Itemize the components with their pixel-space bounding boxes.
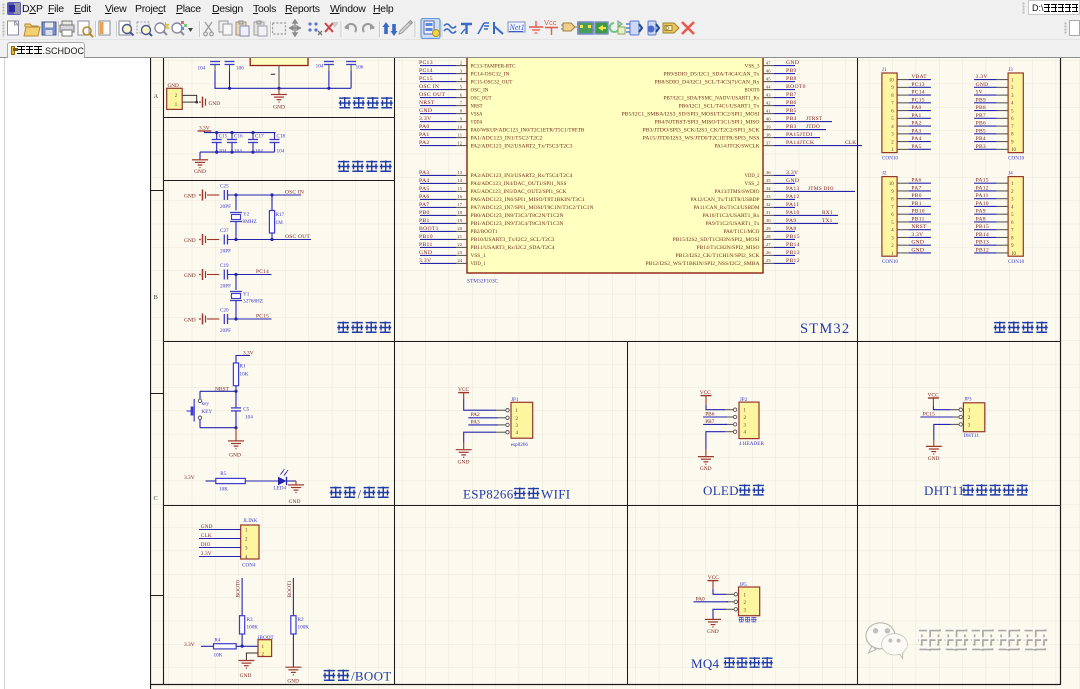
svg-text:C19: C19 <box>220 263 229 269</box>
pin 40 right wire + net PB4 <box>763 121 774 123</box>
wire PA0 mq4 <box>694 601 729 603</box>
svg-text:3.3V: 3.3V <box>976 74 988 80</box>
svg-text:PB11/USART3_Rx/I2C2_SDA/T2C4: PB11/USART3_Rx/I2C2_SDA/T2C4 <box>471 246 556 251</box>
svg-text:C17: C17 <box>255 134 264 140</box>
svg-text:PB6: PB6 <box>976 121 986 127</box>
svg-text:104: 104 <box>245 415 253 421</box>
svg-text:25: 25 <box>766 258 771 263</box>
svg-text:PB3: PB3 <box>786 124 797 130</box>
svg-text:PA12/CAN_Tx/T1ETR/USBDP: PA12/CAN_Tx/T1ETR/USBDP <box>691 198 760 203</box>
svg-text:33: 33 <box>766 194 771 199</box>
svg-text:PA3: PA3 <box>911 128 921 134</box>
svg-text:PA1: PA1 <box>911 113 921 119</box>
svg-text:22: 22 <box>457 242 462 247</box>
wire R3 to junction <box>241 634 243 646</box>
wire PB6 <box>703 416 727 418</box>
svg-text:PC13: PC13 <box>911 82 924 88</box>
svg-text:20PF: 20PF <box>220 284 231 290</box>
pin 6 left wire + net OSC OUT <box>420 97 456 99</box>
wire row C27 <box>228 239 312 241</box>
svg-text:GND: GND <box>928 456 940 462</box>
svg-text:19: 19 <box>457 218 462 223</box>
svg-text:JTRST: JTRST <box>806 116 823 122</box>
svg-text:MQ4: MQ4 <box>691 656 720 671</box>
ground oled <box>698 456 714 458</box>
svg-text:45: 45 <box>766 76 771 81</box>
section title 滤波电路 <box>338 161 350 173</box>
svg-text:23: 23 <box>457 250 462 255</box>
pin 12 left wire + net PA2 <box>420 145 456 147</box>
svg-text:3.3V: 3.3V <box>419 116 432 122</box>
pin 24 left wire + net 3.3V <box>420 262 456 264</box>
svg-text:106: 106 <box>236 66 244 72</box>
wire VCC to JP3 pin1 <box>933 406 950 410</box>
svg-text:VDD_2: VDD_2 <box>745 174 761 179</box>
svg-text:20: 20 <box>457 226 462 231</box>
ground below regulator <box>278 88 280 94</box>
wire row C25 <box>228 194 302 196</box>
section divider lines <box>394 58 396 685</box>
zone tick marks <box>150 190 163 192</box>
svg-text:PA3: PA3 <box>419 170 430 176</box>
svg-text:GND: GND <box>707 629 719 635</box>
svg-text:35: 35 <box>766 178 771 183</box>
pin 34 right wire + net PA13 <box>763 190 774 192</box>
svg-text:PA1: PA1 <box>419 132 430 138</box>
svg-text:BOOT0: BOOT0 <box>745 88 761 93</box>
svg-text:C25: C25 <box>220 184 229 190</box>
svg-text:PA9: PA9 <box>976 209 986 215</box>
wire JBOOT pin2 to GND <box>246 653 258 660</box>
svg-text:DIO: DIO <box>201 542 211 548</box>
wire 3.3V to R5 <box>206 480 216 482</box>
svg-text:104: 104 <box>316 64 324 70</box>
svg-text:100K: 100K <box>247 624 259 630</box>
svg-text:D: D <box>666 26 670 32</box>
svg-text:104: 104 <box>198 66 206 72</box>
svg-text:20PF: 20PF <box>220 204 231 210</box>
svg-text:RX1: RX1 <box>822 210 833 216</box>
svg-text:C27: C27 <box>220 228 229 234</box>
svg-text:PB10: PB10 <box>419 234 433 240</box>
svg-text:PC15-OSC32_OUT: PC15-OSC32_OUT <box>471 80 513 85</box>
svg-text:3.3V: 3.3V <box>419 258 432 264</box>
svg-text:J1: J1 <box>882 67 887 73</box>
svg-text:10: 10 <box>457 124 462 129</box>
svg-text:1M: 1M <box>276 220 284 226</box>
section title 下载/BOOT <box>323 670 335 682</box>
pin 18 left wire + net PB0 <box>420 214 456 216</box>
svg-text:PA10/T1C3/USART1_Rx: PA10/T1C3/USART1_Rx <box>703 214 761 219</box>
wire row C20 <box>228 318 272 320</box>
junctions filter <box>215 131 218 134</box>
pin 7 left wire + net NRST <box>420 105 456 107</box>
svg-text:10: 10 <box>1011 148 1016 153</box>
svg-text:PB1/ADC123_IN9/T3C4/T8C3N/T1C3: PB1/ADC123_IN9/T3C4/T8C3N/T1C3N <box>471 222 565 227</box>
svg-text:VDDA: VDDA <box>471 120 483 125</box>
svg-text:3.3V: 3.3V <box>201 551 212 557</box>
svg-text:10K: 10K <box>214 652 223 658</box>
svg-text:39: 39 <box>766 124 771 129</box>
svg-text:PB0/ADC123_IN8/T3C3/T8C2N/T1C2: PB0/ADC123_IN8/T3C3/T8C2N/T1C2N <box>471 214 565 219</box>
pin 3 left wire + net PC14 <box>420 73 456 75</box>
capacitor C9 (cut top) <box>210 61 220 63</box>
svg-text:PB15: PB15 <box>786 234 800 240</box>
svg-text:NRST: NRST <box>419 100 435 106</box>
power port GND at P1 <box>202 97 204 108</box>
svg-text:41: 41 <box>766 108 771 113</box>
pin 19 left wire + net PB1 <box>420 222 456 224</box>
svg-text:PA5/ADC123_IN5/DAC_OUT2/SPI1_S: PA5/ADC123_IN5/DAC_OUT2/SPI1_SCK <box>471 190 568 195</box>
svg-text:WIFI: WIFI <box>541 487 570 502</box>
ground jboot <box>238 660 254 662</box>
svg-text:28: 28 <box>766 234 771 239</box>
svg-text:PB13: PB13 <box>786 250 800 256</box>
svg-text:40: 40 <box>766 116 771 121</box>
svg-text:GND: GND <box>289 499 301 505</box>
wire key bottom <box>200 427 236 429</box>
pin 46 right wire + net PB9 <box>763 73 774 75</box>
svg-text:PB9/SDIO_D5/I2C1_SDA/T4C4/CAN_: PB9/SDIO_D5/I2C1_SDA/T4C4/CAN_Tx <box>664 72 761 77</box>
switch S1 KEY <box>199 391 201 399</box>
svg-text:PA8: PA8 <box>976 216 986 222</box>
svg-text:GND: GND <box>229 453 241 459</box>
svg-text:GND: GND <box>184 194 196 200</box>
svg-text:PA4/ADC123_IN4/DAC_OUT1/SPI1_N: PA4/ADC123_IN4/DAC_OUT1/SPI1_NSS <box>471 182 567 187</box>
crystal Y2 8MHZ <box>235 195 237 211</box>
svg-text:PC15: PC15 <box>911 97 924 103</box>
svg-text:PA12: PA12 <box>786 194 800 200</box>
pin 15 left wire + net PA5 <box>420 190 456 192</box>
svg-text:3.3V: 3.3V <box>786 170 799 176</box>
svg-text:GND: GND <box>201 524 213 530</box>
svg-text:104: 104 <box>255 149 263 155</box>
wire BOOT0 to R3 <box>241 578 243 616</box>
wire jlink CLK <box>199 538 241 540</box>
svg-text:CON10: CON10 <box>882 259 899 265</box>
svg-text:OSC OUT: OSC OUT <box>285 234 311 240</box>
svg-text:PB12/I2S2_WS/T1BKIN/SPI2_NSS/I: PB12/I2S2_WS/T1BKIN/SPI2_NSS/I2C2_SMBA <box>646 262 761 267</box>
svg-text:C16: C16 <box>234 134 243 140</box>
svg-text:PB8: PB8 <box>786 76 797 82</box>
svg-text:PB1: PB1 <box>419 218 430 224</box>
svg-text:PB13: PB13 <box>976 240 989 246</box>
capacitor C25 <box>223 190 225 200</box>
svg-text:PA0/WKUP/ADC123_IN0/T2C1ETR/T5: PA0/WKUP/ADC123_IN0/T2C1ETR/T5C1/T8ETR <box>471 128 586 133</box>
svg-text:PA0: PA0 <box>419 124 430 130</box>
pin 38 right wire + net PA15JTDI <box>763 137 774 139</box>
wire JP5 pin3 to GND <box>713 609 726 619</box>
svg-text:A: A <box>154 93 159 100</box>
svg-text:5V: 5V <box>976 90 983 96</box>
pin 35 right wire + net GND <box>763 182 774 184</box>
svg-text:31: 31 <box>766 210 771 215</box>
svg-text:VDD_1: VDD_1 <box>471 262 487 267</box>
svg-text:GND: GND <box>700 466 712 472</box>
svg-text:36: 36 <box>766 170 771 175</box>
svg-text:PA7: PA7 <box>419 202 430 208</box>
svg-text:PC13-TAMPER-RTC: PC13-TAMPER-RTC <box>471 64 516 69</box>
svg-text:PC13: PC13 <box>419 60 433 66</box>
svg-text:R4: R4 <box>214 637 220 643</box>
svg-text:Y1: Y1 <box>243 292 250 298</box>
svg-text:PA15JTDI: PA15JTDI <box>786 132 813 138</box>
svg-text:BOOT1: BOOT1 <box>419 226 439 232</box>
svg-text:PB7: PB7 <box>976 113 986 119</box>
pin 42 right wire + net PB6 <box>763 105 774 107</box>
svg-text:TX1: TX1 <box>822 218 833 224</box>
resistor R4 10K <box>214 644 237 649</box>
svg-text:PB11: PB11 <box>911 216 924 222</box>
svg-text:PA10: PA10 <box>786 210 800 216</box>
wire JP3 pin3 to GND <box>934 424 951 440</box>
svg-text:C20: C20 <box>220 308 229 314</box>
svg-text:PB4: PB4 <box>976 136 986 142</box>
capacitor C16 <box>231 133 233 140</box>
svg-text:Y2: Y2 <box>243 212 250 218</box>
wire filter bottom <box>200 151 275 153</box>
svg-text:PA4: PA4 <box>419 178 430 184</box>
sheet border frame <box>150 58 152 689</box>
svg-text:GND: GND <box>911 240 924 246</box>
svg-text:PA10: PA10 <box>976 201 989 207</box>
svg-text:JTMS DIO: JTMS DIO <box>808 186 834 192</box>
svg-text:20PF: 20PF <box>220 249 231 255</box>
sheet background <box>150 58 1080 689</box>
svg-text:38: 38 <box>766 132 771 137</box>
svg-text:PB9: PB9 <box>976 97 986 103</box>
svg-text:104: 104 <box>234 149 242 155</box>
section title 电压转换 <box>339 97 351 109</box>
svg-text:PA9/T1C2/USART1_Tx: PA9/T1C2/USART1_Tx <box>706 222 761 227</box>
pin 9 left wire + net 3.3V <box>420 121 456 123</box>
svg-text:CON10: CON10 <box>1008 156 1025 162</box>
svg-text:PA13: PA13 <box>786 186 800 192</box>
svg-text:10: 10 <box>889 78 894 83</box>
svg-text:NRST: NRST <box>911 224 927 230</box>
svg-text:PB10: PB10 <box>911 209 924 215</box>
svg-text:PA6: PA6 <box>911 178 921 184</box>
svg-text:CON10: CON10 <box>882 156 899 162</box>
svg-text:PB7: PB7 <box>786 92 797 98</box>
svg-text:PA2: PA2 <box>419 140 430 146</box>
svg-text:DHT11: DHT11 <box>963 433 979 439</box>
svg-text:PB10/USART3_Tx/I2C2_SCL/T2C3: PB10/USART3_Tx/I2C2_SCL/T2C3 <box>471 238 556 243</box>
svg-text:104: 104 <box>219 149 227 155</box>
ground esp8266 <box>456 449 472 451</box>
pin 16 left wire + net PA6 <box>420 198 456 200</box>
svg-text:OLED: OLED <box>703 483 739 498</box>
capacitor C20 <box>223 314 225 324</box>
svg-text:PC15: PC15 <box>419 76 433 82</box>
svg-text:GND: GND <box>273 105 285 111</box>
pin 21 left wire + net PB10 <box>420 238 456 240</box>
svg-text:CLK: CLK <box>201 533 212 539</box>
svg-text:PA8/T1C1/MCO: PA8/T1C1/MCO <box>724 230 761 235</box>
pin 17 left wire + net PA7 <box>420 206 456 208</box>
svg-text:PA3/ADC123_IN3/USART2_Rx/T5C4/: PA3/ADC123_IN3/USART2_Rx/T5C4/T2C4 <box>471 174 574 179</box>
wire JP1 pin4 to GND <box>464 432 496 442</box>
svg-text:GND: GND <box>209 101 221 107</box>
pin 25 right wire + net PB12 <box>763 262 774 264</box>
svg-text:BOOT0: BOOT0 <box>236 580 242 598</box>
svg-text:PA6: PA6 <box>419 194 430 200</box>
svg-text:3.3V: 3.3V <box>911 232 923 238</box>
svg-text:PB4/NJTRST/SPI3_MISO/T3C1/SPI1: PB4/NJTRST/SPI3_MISO/T3C1/SPI1_MISO <box>655 120 761 125</box>
svg-text:C18: C18 <box>277 134 286 140</box>
svg-text:10: 10 <box>889 182 894 187</box>
pin 22 left wire + net PB11 <box>420 246 456 248</box>
pin 30 right wire + net PA9 <box>763 222 774 224</box>
svg-text:20PF: 20PF <box>220 328 231 334</box>
ground R2 <box>285 666 301 668</box>
svg-text:PB13/I2S2_CK/T1CH1N/SPI2_SCK: PB13/I2S2_CK/T1CH1N/SPI2_SCK <box>676 254 761 259</box>
svg-text:PB14/T1CH2N/SPI2_MISO: PB14/T1CH2N/SPI2_MISO <box>697 246 761 251</box>
resistor R5 10K <box>216 478 246 483</box>
svg-text:PA14/JTCK/SWCLK: PA14/JTCK/SWCLK <box>715 144 761 149</box>
svg-text:J2: J2 <box>882 171 887 177</box>
STM32F103C chip body U2 <box>467 47 763 273</box>
pin 33 right wire + net PA12 <box>763 198 774 200</box>
svg-text:10K: 10K <box>240 372 249 378</box>
capacitor C5 104 <box>235 391 237 408</box>
svg-text:37: 37 <box>766 140 771 145</box>
svg-text:J3: J3 <box>1008 67 1013 73</box>
svg-text:GND: GND <box>458 460 470 466</box>
resistor R1 10K <box>233 363 238 386</box>
svg-text:BOOT1: BOOT1 <box>287 580 293 598</box>
svg-text:JLINK: JLINK <box>243 518 258 524</box>
svg-text:OSC IN: OSC IN <box>419 84 439 90</box>
svg-text:PA14JTCK: PA14JTCK <box>786 140 815 146</box>
svg-text:GND: GND <box>194 169 206 175</box>
svg-text:3.3V: 3.3V <box>184 642 195 648</box>
svg-text:32768HZ: 32768HZ <box>243 298 263 304</box>
svg-text:PB3: PB3 <box>976 144 986 150</box>
svg-text:GND: GND <box>976 82 989 88</box>
svg-text:42: 42 <box>766 100 771 105</box>
svg-text:11: 11 <box>458 132 463 137</box>
svg-text:PA13/JTMS/SWDIO: PA13/JTMS/SWDIO <box>715 190 761 195</box>
wire VCC to JP5 pin1 <box>713 589 726 595</box>
pin 2 left wire + net PC13 <box>420 65 456 67</box>
capacitor C15 <box>216 133 218 140</box>
svg-text:PB5: PB5 <box>976 128 986 134</box>
wire NRST <box>200 390 236 392</box>
resistor R2 100K <box>291 616 296 634</box>
pin 23 left wire + net GND <box>420 254 456 256</box>
wire R1 bottom <box>235 386 237 392</box>
svg-text:PB1: PB1 <box>911 201 921 207</box>
svg-text:PA0: PA0 <box>911 105 921 111</box>
wire PC15 dht11 <box>920 416 952 418</box>
capacitor C12 (cut top) <box>346 61 356 63</box>
svg-text:PC14: PC14 <box>419 68 433 74</box>
svg-text:OSC_IN: OSC_IN <box>471 88 490 93</box>
pin 32 right wire + net PA11 <box>763 206 774 208</box>
svg-text:STM32F103C: STM32F103C <box>467 279 499 285</box>
svg-text:GND: GND <box>786 60 799 66</box>
pin 11 left wire + net PA1 <box>420 137 456 139</box>
svg-text:VBAT: VBAT <box>911 74 927 80</box>
svg-text:34: 34 <box>766 186 771 191</box>
pin 5 left wire + net OSC IN <box>420 89 456 91</box>
svg-text:R17: R17 <box>276 212 285 218</box>
watermark wechat icon <box>866 623 907 659</box>
pin 13 left wire + net PA3 <box>420 174 456 176</box>
resistor R17 1M <box>271 195 273 211</box>
svg-text:/BOOT: /BOOT <box>351 669 392 684</box>
svg-text:PA2: PA2 <box>911 121 921 127</box>
pin 8 left wire + net GND <box>420 113 456 115</box>
svg-text:30: 30 <box>766 218 771 223</box>
svg-text:PB15/I2S2_SD/T1CH3N/SPI2_MOSI: PB15/I2S2_SD/T1CH3N/SPI2_MOSI <box>673 238 760 243</box>
pin 39 right wire + net PB3 <box>763 129 774 131</box>
watermark text 学霸单片机 <box>918 628 942 651</box>
svg-text:C5: C5 <box>243 407 249 413</box>
wire 3.3V to R4 <box>201 645 214 647</box>
svg-text:key: key <box>202 401 210 407</box>
wire BOOT1 to R2 <box>292 578 294 616</box>
wire jlink DIO <box>199 547 241 549</box>
svg-text:PA6/ADC123_IN6/SPI1_MISO/T8T1B: PA6/ADC123_IN6/SPI1_MISO/T8T1BKIN/T3C1 <box>471 198 586 203</box>
svg-text:R2: R2 <box>298 617 304 623</box>
svg-text:PB5: PB5 <box>786 108 797 114</box>
svg-text:JTDO: JTDO <box>806 124 820 130</box>
svg-text:GND: GND <box>184 273 196 279</box>
svg-text:PA7: PA7 <box>911 185 921 191</box>
svg-text:VSS_2: VSS_2 <box>745 182 761 187</box>
svg-text:17: 17 <box>457 202 462 207</box>
wire PA2 <box>468 417 498 419</box>
svg-text:GND: GND <box>287 678 299 684</box>
svg-text:PA11/CAN_Rx/T1C4/USBDM: PA11/CAN_Rx/T1C4/USBDM <box>694 206 761 211</box>
capacitor C17 <box>252 133 254 140</box>
pin 31 right wire + net PA10 <box>763 214 774 216</box>
svg-text:PB0: PB0 <box>911 193 921 199</box>
svg-text:GND: GND <box>419 108 432 114</box>
svg-text:PB0: PB0 <box>419 210 430 216</box>
svg-text:29: 29 <box>766 226 771 231</box>
svg-text:PB5/I2C1_SMBA/I2S3_SD/SPI3_MOS: PB5/I2C1_SMBA/I2S3_SD/SPI3_MOSI/T3C2/SPI… <box>622 112 760 117</box>
svg-text:PC15: PC15 <box>256 313 269 319</box>
svg-text:esp8266: esp8266 <box>511 442 529 448</box>
svg-text:21: 21 <box>457 234 462 239</box>
svg-text:OSC IN: OSC IN <box>285 189 304 195</box>
svg-text:12: 12 <box>457 140 462 145</box>
svg-text:PB12: PB12 <box>976 247 989 253</box>
wire row C19 <box>228 274 272 276</box>
pin 44 right wire + net BOOT0 <box>763 89 774 91</box>
pin 41 right wire + net PB5 <box>763 113 774 115</box>
svg-text:PA9: PA9 <box>786 218 797 224</box>
svg-text:26: 26 <box>766 250 771 255</box>
svg-text:GND: GND <box>419 250 432 256</box>
junction dots <box>228 87 231 90</box>
svg-text:18: 18 <box>457 210 462 215</box>
svg-text:13: 13 <box>457 170 462 175</box>
svg-text:PB14: PB14 <box>976 232 989 238</box>
svg-text:PA8: PA8 <box>786 226 797 232</box>
pin 28 right wire + net PB15 <box>763 238 774 240</box>
svg-text:PB8: PB8 <box>976 105 986 111</box>
svg-text:PB6: PB6 <box>786 100 797 106</box>
svg-text:ESP8266: ESP8266 <box>463 487 514 502</box>
resistor R3 100K <box>240 616 245 634</box>
wire PA3 <box>468 424 498 426</box>
svg-text:PC14-OSC32_IN: PC14-OSC32_IN <box>471 72 511 77</box>
svg-text:PC14: PC14 <box>256 269 269 275</box>
